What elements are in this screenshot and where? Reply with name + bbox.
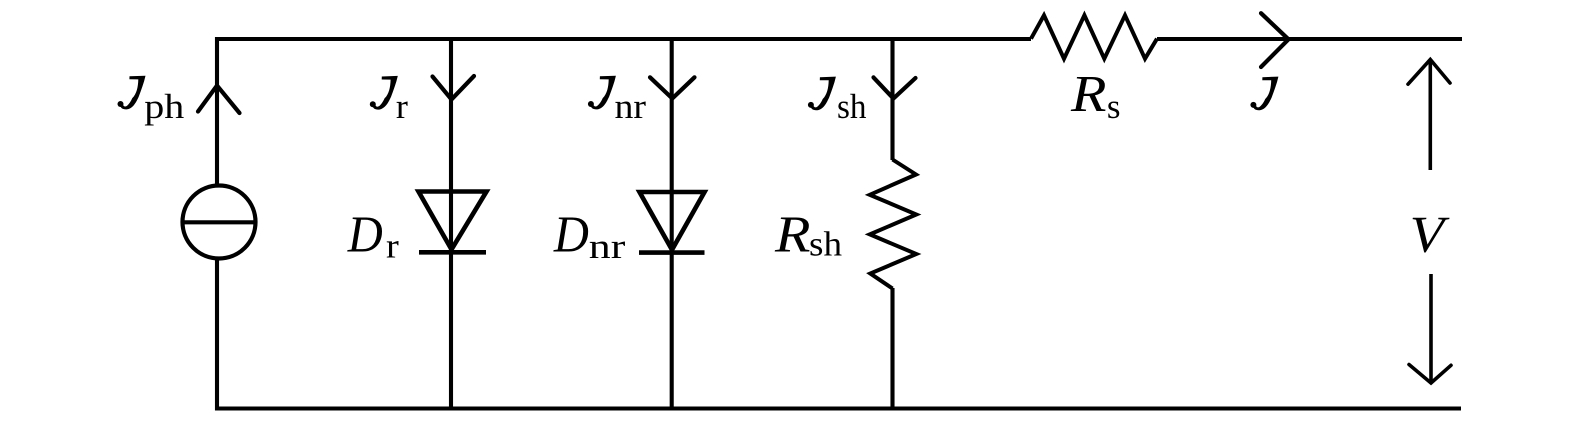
- svg-text:s: s: [1107, 87, 1121, 126]
- current source bar: [183, 220, 256, 224]
- svg-text:r: r: [386, 227, 399, 266]
- resistor R_s: [1031, 15, 1157, 58]
- label J_nr: [588, 76, 616, 110]
- label J: [1250, 77, 1278, 111]
- diode Dr triangle: [419, 192, 487, 250]
- svg-text:nr: nr: [615, 87, 647, 126]
- current arrow J (right chevron): [1261, 13, 1289, 67]
- svg-text:R: R: [1070, 66, 1107, 123]
- wire left branch above current source: [215, 37, 219, 186]
- voltage arrow down head: [1409, 365, 1451, 384]
- svg-text:r: r: [396, 87, 408, 126]
- wire top rail right of Rs: [1157, 37, 1462, 41]
- svg-text:ph: ph: [144, 87, 185, 126]
- resistor R_sh: [870, 160, 917, 289]
- label J_sh: [808, 77, 836, 111]
- wire Rsh branch lower: [890, 288, 894, 411]
- label J_r: [370, 76, 398, 110]
- diode Dnr cathode bar: [639, 250, 705, 255]
- diode Dnr triangle: [640, 192, 705, 250]
- wire Rsh branch upper: [890, 37, 894, 160]
- diode Dr cathode bar: [419, 250, 486, 255]
- wire diode Dr branch: [449, 37, 453, 411]
- wire top rail left of Rs: [217, 37, 1032, 41]
- svg-text:D: D: [553, 206, 589, 263]
- label J_ph: [118, 76, 146, 110]
- svg-text:sh: sh: [837, 87, 867, 126]
- current arrow J_r (down chevron): [433, 76, 475, 100]
- current source J_ph circle: [183, 186, 256, 259]
- voltage arrow up stem: [1429, 60, 1433, 170]
- voltage arrow up head: [1408, 60, 1450, 85]
- current arrow J_ph (up chevron): [198, 86, 240, 114]
- current arrow J_nr (down chevron): [650, 77, 695, 98]
- voltage arrow down stem: [1429, 274, 1433, 382]
- svg-text:nr: nr: [589, 227, 626, 266]
- svg-text:R: R: [774, 206, 811, 263]
- wire bottom rail: [217, 406, 1462, 410]
- svg-text:V: V: [1410, 207, 1450, 264]
- wire left branch below current source: [215, 258, 219, 411]
- current arrow J_sh (down chevron): [874, 77, 916, 98]
- wire diode Dnr branch: [670, 37, 674, 411]
- svg-text:sh: sh: [809, 225, 843, 264]
- svg-text:D: D: [347, 206, 383, 263]
